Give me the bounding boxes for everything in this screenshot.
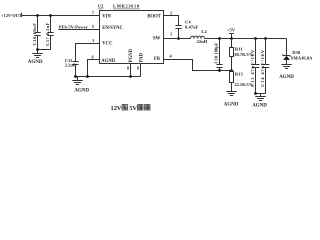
wire AGND pin (88, 60, 101, 77)
junction node C4/SW (177, 37, 180, 40)
wire SW to inductor (164, 38, 191, 40)
svg-text:PGND: PGND (129, 48, 134, 62)
wire EN/SYNC (59, 29, 101, 31)
wire FB (164, 60, 232, 71)
resistor R13 22.1K/1% (230, 71, 254, 92)
inductor L2 22uH (191, 29, 208, 44)
svg-text:C10 100pF: C10 100pF (214, 42, 219, 64)
capacitor C17 0.1uF (45, 16, 54, 50)
svg-text:AGND: AGND (28, 60, 43, 65)
svg-text:SW: SW (153, 37, 161, 42)
svg-text:C17 0.1uF: C17 0.1uF (45, 22, 50, 46)
wire PGND stub (130, 64, 132, 77)
junction node C10 bottom (218, 69, 221, 72)
svg-text:AGND: AGND (279, 75, 294, 80)
junction node cap C17 (49, 14, 52, 17)
junction node AGND drop (86, 75, 89, 78)
svg-text:+5V: +5V (227, 28, 236, 33)
wire ground rail under IC (76, 76, 141, 78)
junction node C14 top (264, 37, 267, 40)
svg-text:VIN: VIN (102, 14, 111, 19)
junction node cap C16 (36, 14, 39, 17)
svg-text:0.47uF: 0.47uF (185, 25, 199, 30)
junction node C10 top (218, 37, 221, 40)
junction node input ground (36, 48, 39, 51)
wire output caps bottom rail (256, 93, 266, 95)
resistor R11 88.7K/1% (230, 39, 254, 71)
svg-text:U2: U2 (98, 4, 104, 9)
net label +12V-OUT (1, 13, 22, 18)
ground AGND under C11 (72, 77, 89, 94)
ground AGND under D30 (279, 65, 294, 81)
capacitor C16 10uF (32, 16, 41, 50)
svg-text:PAD: PAD (140, 52, 145, 62)
svg-text:C16 10uF: C16 10uF (32, 22, 37, 45)
svg-text:AGND: AGND (74, 88, 89, 93)
svg-text:9: 9 (137, 65, 139, 70)
net label PE6-5V-Power (59, 24, 88, 29)
svg-text:VCC: VCC (102, 42, 113, 47)
svg-text:L2: L2 (201, 29, 207, 34)
svg-text:C14 47uF/16V: C14 47uF/16V (260, 49, 265, 87)
junction node C11 bottom (74, 75, 77, 78)
IC U2 LMR23610 (98, 4, 164, 64)
junction node C13 top (254, 37, 257, 40)
capacitor C14 47uF/16V (260, 39, 270, 94)
capacitor C4 0.47uF (175, 19, 198, 38)
junction node output gnd (254, 92, 257, 95)
ground AGND input (28, 50, 43, 66)
svg-text:AGND: AGND (224, 102, 239, 107)
svg-text:R13: R13 (235, 72, 244, 77)
capacitor C13 47uF/16V (250, 39, 260, 94)
svg-text:D30: D30 (292, 50, 301, 55)
svg-text:SMAJ6.0A: SMAJ6.0A (291, 56, 313, 61)
svg-text:AGND: AGND (101, 59, 115, 64)
diode D30 SMAJ6.0A TVS (283, 39, 313, 65)
capacitor C10 100pF feedforward (214, 39, 223, 71)
svg-text:AGND: AGND (252, 103, 267, 108)
wire input caps bottom rail (38, 49, 51, 51)
svg-text:3: 3 (92, 38, 94, 43)
svg-text:2: 2 (170, 10, 172, 15)
junction node FB divider (230, 69, 233, 72)
svg-text:1: 1 (170, 32, 172, 37)
svg-text:8: 8 (127, 65, 129, 70)
capacitor C11 2.2uF (65, 58, 79, 77)
svg-text:PE6-5V-Power: PE6-5V-Power (59, 24, 88, 29)
power +5V (227, 28, 236, 39)
svg-text:+12V-OUT: +12V-OUT (1, 13, 22, 18)
wire PAD stub (140, 64, 142, 77)
junction node PGND (129, 75, 132, 78)
svg-text:LMR23610: LMR23610 (113, 4, 140, 9)
svg-text:12V: 12V (111, 105, 122, 112)
junction node R11 top (230, 37, 233, 40)
caption 12V to 5V output (111, 105, 151, 112)
svg-text:FB: FB (154, 57, 160, 62)
svg-text:EN/SYNC: EN/SYNC (102, 26, 123, 31)
ground AGND under R13 (224, 92, 239, 108)
wire input 12V to VIN (22, 15, 101, 17)
wire +5V rail (205, 38, 287, 40)
svg-text:BOOT: BOOT (147, 14, 161, 19)
svg-text:22uH: 22uH (197, 39, 208, 44)
wire VCC to C11 (76, 44, 101, 62)
ground AGND under output caps (252, 94, 267, 109)
svg-text:5V: 5V (129, 105, 137, 112)
svg-text:5: 5 (92, 24, 94, 29)
svg-text:C13 47uF/16V: C13 47uF/16V (250, 49, 255, 87)
svg-text:2.2uF: 2.2uF (65, 63, 76, 68)
wire BOOT (164, 16, 179, 26)
